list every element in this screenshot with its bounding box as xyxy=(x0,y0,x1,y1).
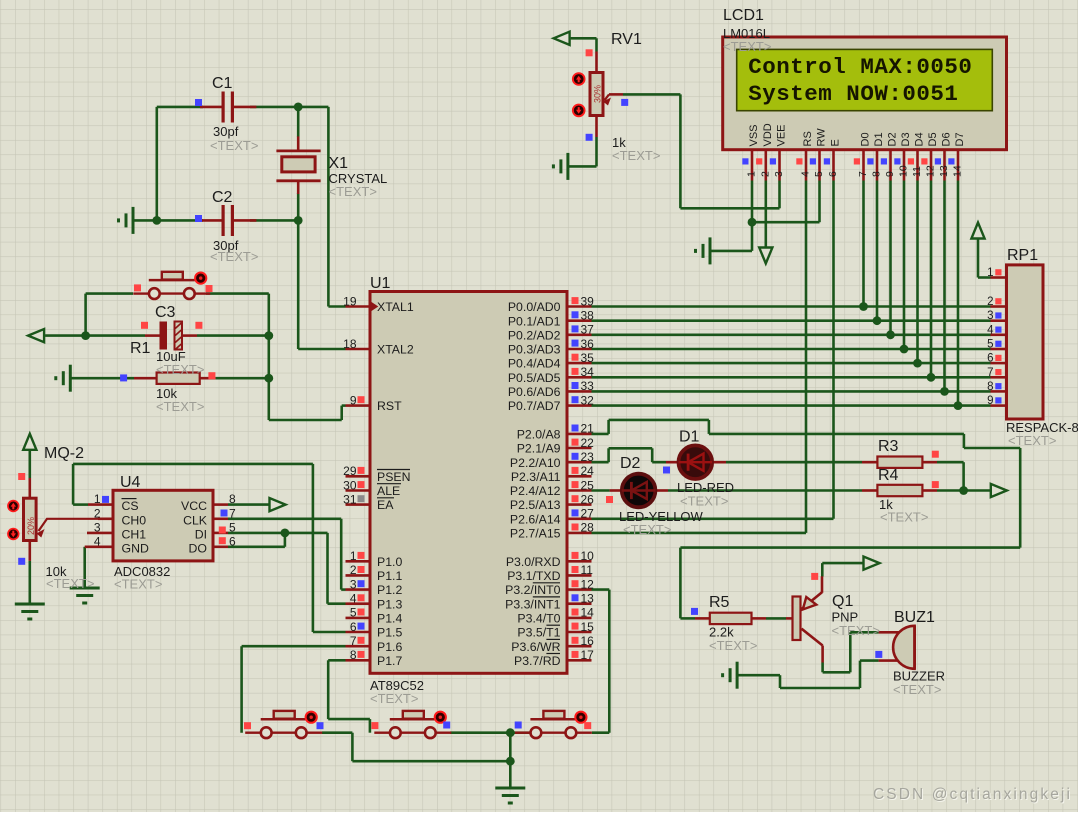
svg-text:RV1: RV1 xyxy=(611,31,642,48)
svg-text:10: 10 xyxy=(581,549,595,563)
svg-text:13: 13 xyxy=(581,592,595,606)
svg-text:<TEXT>: <TEXT> xyxy=(612,148,660,163)
svg-text:6: 6 xyxy=(350,620,357,634)
svg-text:25: 25 xyxy=(581,478,595,492)
svg-text:7: 7 xyxy=(857,171,869,177)
svg-text:P0.2/AD2: P0.2/AD2 xyxy=(508,328,561,342)
svg-text:CS: CS xyxy=(122,499,139,513)
svg-text:11: 11 xyxy=(581,563,594,577)
svg-text:CSDN @cqtianxingkeji: CSDN @cqtianxingkeji xyxy=(873,786,1072,803)
svg-text:2: 2 xyxy=(987,296,993,308)
svg-text:<TEXT>: <TEXT> xyxy=(46,576,94,591)
svg-text:D5: D5 xyxy=(927,132,939,146)
svg-text:RW: RW xyxy=(816,128,828,147)
svg-text:P0.6/AD6: P0.6/AD6 xyxy=(508,385,561,399)
svg-text:24: 24 xyxy=(581,464,595,478)
svg-text:P3.0/RXD: P3.0/RXD xyxy=(506,555,561,569)
svg-text:15: 15 xyxy=(581,620,595,634)
svg-text:E: E xyxy=(830,139,842,146)
svg-text:DO: DO xyxy=(189,541,207,555)
svg-text:R5: R5 xyxy=(709,594,730,611)
svg-text:8: 8 xyxy=(350,648,357,662)
svg-text:<TEXT>: <TEXT> xyxy=(370,691,418,706)
svg-text:U1: U1 xyxy=(370,275,391,292)
svg-text:27: 27 xyxy=(581,507,595,521)
svg-text:PSEN: PSEN xyxy=(377,470,411,484)
svg-text:35: 35 xyxy=(581,351,595,365)
svg-text:D1: D1 xyxy=(679,429,700,446)
svg-text:2: 2 xyxy=(94,506,101,520)
svg-text:P2.0/A8: P2.0/A8 xyxy=(517,428,561,442)
svg-text:14: 14 xyxy=(952,165,964,177)
svg-text:7: 7 xyxy=(229,506,236,520)
svg-text:P0.3/AD3: P0.3/AD3 xyxy=(508,343,561,357)
svg-text:12: 12 xyxy=(925,165,937,177)
svg-text:P2.4/A12: P2.4/A12 xyxy=(510,484,561,498)
svg-text:21: 21 xyxy=(581,422,595,436)
svg-text:D2: D2 xyxy=(887,132,899,146)
svg-text:9: 9 xyxy=(350,393,357,407)
svg-text:MQ-2: MQ-2 xyxy=(44,445,84,462)
svg-text:2: 2 xyxy=(759,171,771,177)
svg-text:D2: D2 xyxy=(620,455,641,472)
svg-text:30pf: 30pf xyxy=(213,124,239,139)
svg-text:P0.4/AD4: P0.4/AD4 xyxy=(508,357,561,371)
svg-text:17: 17 xyxy=(581,648,595,662)
svg-text:28: 28 xyxy=(581,521,595,535)
svg-text:29: 29 xyxy=(343,464,357,478)
svg-text:5: 5 xyxy=(987,339,993,351)
svg-text:P3.7/RD: P3.7/RD xyxy=(514,654,561,668)
svg-text:D1: D1 xyxy=(873,132,885,146)
svg-text:D0: D0 xyxy=(860,132,872,146)
svg-text:3: 3 xyxy=(94,521,101,535)
svg-text:<TEXT>: <TEXT> xyxy=(1008,433,1056,448)
svg-text:<TEXT>: <TEXT> xyxy=(623,522,671,537)
svg-text:RST: RST xyxy=(377,399,402,413)
svg-text:3: 3 xyxy=(350,577,357,591)
svg-text:36: 36 xyxy=(581,337,595,351)
svg-text:11: 11 xyxy=(911,166,923,177)
svg-text:P2.6/A14: P2.6/A14 xyxy=(510,512,561,526)
svg-text:7: 7 xyxy=(987,367,993,379)
svg-text:BUZ1: BUZ1 xyxy=(894,609,935,626)
svg-text:37: 37 xyxy=(581,323,595,337)
svg-text:5: 5 xyxy=(350,606,357,620)
svg-text:P2.5/A13: P2.5/A13 xyxy=(510,498,561,512)
svg-text:GND: GND xyxy=(122,541,149,555)
svg-text:30%: 30% xyxy=(592,85,602,103)
svg-text:P1.2: P1.2 xyxy=(377,583,402,597)
svg-text:9: 9 xyxy=(987,395,993,407)
svg-text:P1.0: P1.0 xyxy=(377,555,402,569)
svg-text:P3.4/T0: P3.4/T0 xyxy=(517,612,560,626)
svg-text:4: 4 xyxy=(350,592,357,606)
svg-text:4: 4 xyxy=(94,535,101,549)
svg-text:C1: C1 xyxy=(212,75,233,92)
svg-text:VDD: VDD xyxy=(762,123,774,146)
svg-text:10: 10 xyxy=(898,165,910,177)
svg-text:RS: RS xyxy=(802,131,814,146)
svg-text:7: 7 xyxy=(350,634,357,648)
svg-text:P3.6/WR: P3.6/WR xyxy=(511,640,560,654)
svg-text:R1: R1 xyxy=(130,340,151,357)
svg-text:38: 38 xyxy=(581,309,595,323)
svg-text:4: 4 xyxy=(987,324,994,336)
svg-text:5: 5 xyxy=(229,521,236,535)
svg-text:6: 6 xyxy=(229,535,236,549)
svg-text:D4: D4 xyxy=(914,132,926,146)
svg-text:1: 1 xyxy=(350,549,357,563)
svg-text:P0.1/AD1: P0.1/AD1 xyxy=(508,314,561,328)
svg-text:<TEXT>: <TEXT> xyxy=(880,510,928,525)
svg-text:<TEXT>: <TEXT> xyxy=(893,682,941,697)
svg-text:19: 19 xyxy=(343,294,357,308)
svg-text:ALE: ALE xyxy=(377,484,400,498)
svg-text:<TEXT>: <TEXT> xyxy=(329,184,377,199)
svg-text:CLK: CLK xyxy=(183,513,208,527)
svg-text:3: 3 xyxy=(773,171,785,177)
svg-text:12: 12 xyxy=(581,577,595,591)
svg-text:DI: DI xyxy=(195,528,207,542)
svg-text:EA: EA xyxy=(377,498,394,512)
svg-text:P1.4: P1.4 xyxy=(377,612,402,626)
svg-text:P0.7/AD7: P0.7/AD7 xyxy=(508,399,561,413)
svg-text:<TEXT>: <TEXT> xyxy=(210,138,258,153)
svg-text:1: 1 xyxy=(746,171,758,177)
svg-text:13: 13 xyxy=(938,165,950,177)
svg-text:P1.1: P1.1 xyxy=(377,569,402,583)
svg-text:P3.2/INT0: P3.2/INT0 xyxy=(505,583,561,597)
svg-text:CH1: CH1 xyxy=(122,528,147,542)
svg-text:P3.3/INT1: P3.3/INT1 xyxy=(505,597,561,611)
svg-text:8: 8 xyxy=(987,381,993,393)
svg-text:XTAL1: XTAL1 xyxy=(377,300,414,314)
svg-text:X1: X1 xyxy=(329,155,349,172)
svg-text:23: 23 xyxy=(581,450,595,464)
svg-text:39: 39 xyxy=(581,294,595,308)
svg-text:R3: R3 xyxy=(878,438,899,455)
svg-text:D6: D6 xyxy=(941,132,953,146)
svg-text:<TEXT>: <TEXT> xyxy=(723,39,771,54)
svg-text:P1.6: P1.6 xyxy=(377,640,402,654)
svg-text:P0.0/AD0: P0.0/AD0 xyxy=(508,300,561,314)
svg-text:33: 33 xyxy=(581,379,595,393)
svg-text:30: 30 xyxy=(343,478,357,492)
svg-text:XTAL2: XTAL2 xyxy=(377,343,414,357)
svg-text:1: 1 xyxy=(94,492,101,506)
svg-text:RP1: RP1 xyxy=(1007,247,1038,264)
svg-text:C2: C2 xyxy=(212,189,233,206)
svg-text:VCC: VCC xyxy=(181,499,207,513)
svg-text:<TEXT>: <TEXT> xyxy=(709,638,757,653)
svg-text:<TEXT>: <TEXT> xyxy=(210,249,258,264)
svg-text:3: 3 xyxy=(987,310,993,322)
svg-text:22: 22 xyxy=(581,436,595,450)
svg-text:18: 18 xyxy=(343,337,357,351)
svg-text:9: 9 xyxy=(884,171,896,177)
svg-text:P2.7/A15: P2.7/A15 xyxy=(510,527,561,541)
svg-text:P1.3: P1.3 xyxy=(377,597,402,611)
svg-text:P2.3/A11: P2.3/A11 xyxy=(511,470,561,484)
svg-text:14: 14 xyxy=(581,606,595,620)
svg-text:P0.5/AD5: P0.5/AD5 xyxy=(508,371,561,385)
svg-text:P3.1/TXD: P3.1/TXD xyxy=(507,569,560,583)
svg-text:<TEXT>: <TEXT> xyxy=(156,399,204,414)
svg-text:6: 6 xyxy=(987,353,993,365)
svg-text:2: 2 xyxy=(350,563,357,577)
svg-text:U4: U4 xyxy=(120,474,141,491)
svg-text:Q1: Q1 xyxy=(832,593,853,610)
svg-text:Control MAX:0050: Control MAX:0050 xyxy=(748,54,972,80)
svg-text:34: 34 xyxy=(581,365,595,379)
svg-text:C3: C3 xyxy=(155,304,176,321)
svg-text:VEE: VEE xyxy=(776,124,788,146)
svg-text:31: 31 xyxy=(343,492,357,506)
svg-text:<TEXT>: <TEXT> xyxy=(114,577,162,592)
svg-text:5: 5 xyxy=(813,171,825,177)
svg-text:20%: 20% xyxy=(26,517,36,535)
svg-text:System NOW:0051: System NOW:0051 xyxy=(748,81,958,107)
svg-text:P3.5/T1: P3.5/T1 xyxy=(517,626,560,640)
svg-text:P1.5: P1.5 xyxy=(377,626,402,640)
svg-text:4: 4 xyxy=(800,171,812,177)
svg-text:LCD1: LCD1 xyxy=(723,7,764,24)
svg-text:1: 1 xyxy=(987,267,993,279)
svg-text:VSS: VSS xyxy=(748,124,760,146)
svg-text:<TEXT>: <TEXT> xyxy=(156,362,204,377)
svg-text:D3: D3 xyxy=(900,132,912,146)
svg-text:P2.1/A9: P2.1/A9 xyxy=(517,442,561,456)
svg-text:<TEXT>: <TEXT> xyxy=(832,623,880,638)
svg-text:16: 16 xyxy=(581,634,595,648)
svg-text:CH0: CH0 xyxy=(122,513,147,527)
svg-text:26: 26 xyxy=(581,492,595,506)
svg-text:8: 8 xyxy=(229,492,236,506)
svg-text:D7: D7 xyxy=(954,132,966,146)
svg-text:P1.7: P1.7 xyxy=(377,654,402,668)
svg-text:8: 8 xyxy=(871,171,883,177)
svg-text:<TEXT>: <TEXT> xyxy=(680,494,728,509)
svg-text:6: 6 xyxy=(827,171,839,177)
svg-text:32: 32 xyxy=(581,393,595,407)
svg-text:P2.2/A10: P2.2/A10 xyxy=(510,456,561,470)
svg-text:R4: R4 xyxy=(878,467,899,484)
